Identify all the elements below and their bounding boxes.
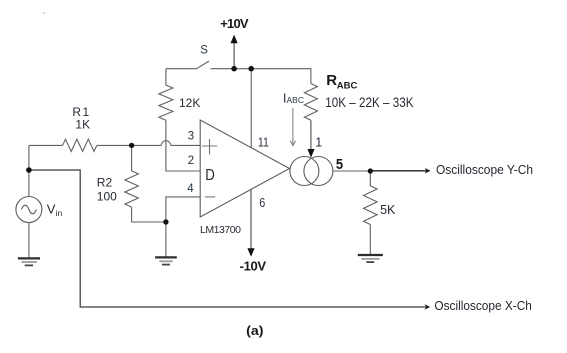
svg-text:R: R [326,72,337,89]
minus symbol inside op-amp [205,196,215,198]
svg-text:6: 6 [259,195,265,210]
wire R_ABC bottom toward current source [310,120,312,149]
ground right (under 5K) [358,255,383,262]
wire pin 4 [166,197,200,222]
plus symbol inside op-amp [202,139,217,155]
svg-text:4: 4 [187,183,194,195]
hop (crossover bump) [161,141,170,146]
junction dot Vin node [26,167,32,173]
wire output to 5K node [333,170,370,172]
Vin source circle [16,197,42,223]
svg-text:Oscilloscope X-Ch: Oscilloscope X-Ch [434,299,532,313]
svg-text:ABC: ABC [287,95,304,105]
svg-text:5K: 5K [380,203,396,217]
pin 11 wire [250,69,252,148]
I_ABC direction arrow line [292,108,294,145]
svg-text:100: 100 [97,189,117,203]
-10V arrowhead [247,248,254,256]
+10V arrow line [233,43,235,69]
svg-text:1: 1 [315,136,322,150]
wire top rail from 12K top corner to switch left contact [166,68,197,70]
wire 5K to right ground [369,225,371,255]
Y arrow line [370,170,426,172]
svg-text:V: V [47,202,56,217]
ground under Vin [18,258,40,265]
switch S blade [197,61,210,69]
I_ABC arrowhead [290,141,295,146]
resistor 12K [159,69,173,121]
svg-text:2: 2 [188,155,194,167]
svg-text:-10V: -10V [240,258,267,273]
wire ground node to middle ground [165,222,167,257]
+10V arrowhead [231,35,238,44]
resistor R2 [125,145,139,207]
svg-text:S: S [200,45,208,57]
svg-text:10K – 22K – 33K: 10K – 22K – 33K [325,94,414,110]
svg-text:3: 3 [188,131,194,143]
wire R2 bottom to ground node [132,207,166,222]
wire Vin to left ground [28,223,30,259]
current source circles [290,157,319,186]
svg-text:D: D [205,167,215,184]
junction dot at pin 11 rail [248,66,254,72]
resistor 5K [364,171,378,225]
resistor R1 [63,139,97,151]
junction dot at +10V [231,66,237,72]
svg-text:5: 5 [336,156,343,173]
junction dot output node [368,168,373,173]
svg-text:11: 11 [258,135,269,150]
svg-text:LM13700: LM13700 [200,224,241,236]
stray speck top-left [43,13,46,15]
svg-text:Oscilloscope Y-Ch: Oscilloscope Y-Ch [436,163,533,177]
svg-text:1K: 1K [75,117,90,131]
svg-text:12K: 12K [179,96,200,110]
pin 6 wire to -10V [250,189,252,249]
X-Ch arrowhead [425,304,431,310]
svg-text:in: in [56,208,63,218]
Y-Ch arrowhead [425,168,431,174]
ground middle (pin4/R2 node) [155,257,177,264]
junction dot ground node [163,219,168,224]
wire X branch: node to bottom rail [29,170,426,307]
wire pin 3 from node with hop over 12K wire [29,144,200,146]
svg-text:(a): (a) [246,323,263,338]
sine wave inside Vin [21,205,36,214]
R_ABC current arrowhead [307,149,314,158]
svg-text:+10V: +10V [220,16,249,31]
resistor R_ABC zigzag [304,84,317,121]
svg-text:ABC: ABC [337,81,358,92]
wire 12K bottom to pin 2 [166,120,200,171]
junction dot R1/R2/pin3 node [129,143,134,148]
svg-text:R2: R2 [97,176,113,190]
wire switch right contact to R_ABC corner [211,69,311,84]
op-amp LM13700 triangle [200,120,289,217]
wire node to Vin [28,145,30,196]
